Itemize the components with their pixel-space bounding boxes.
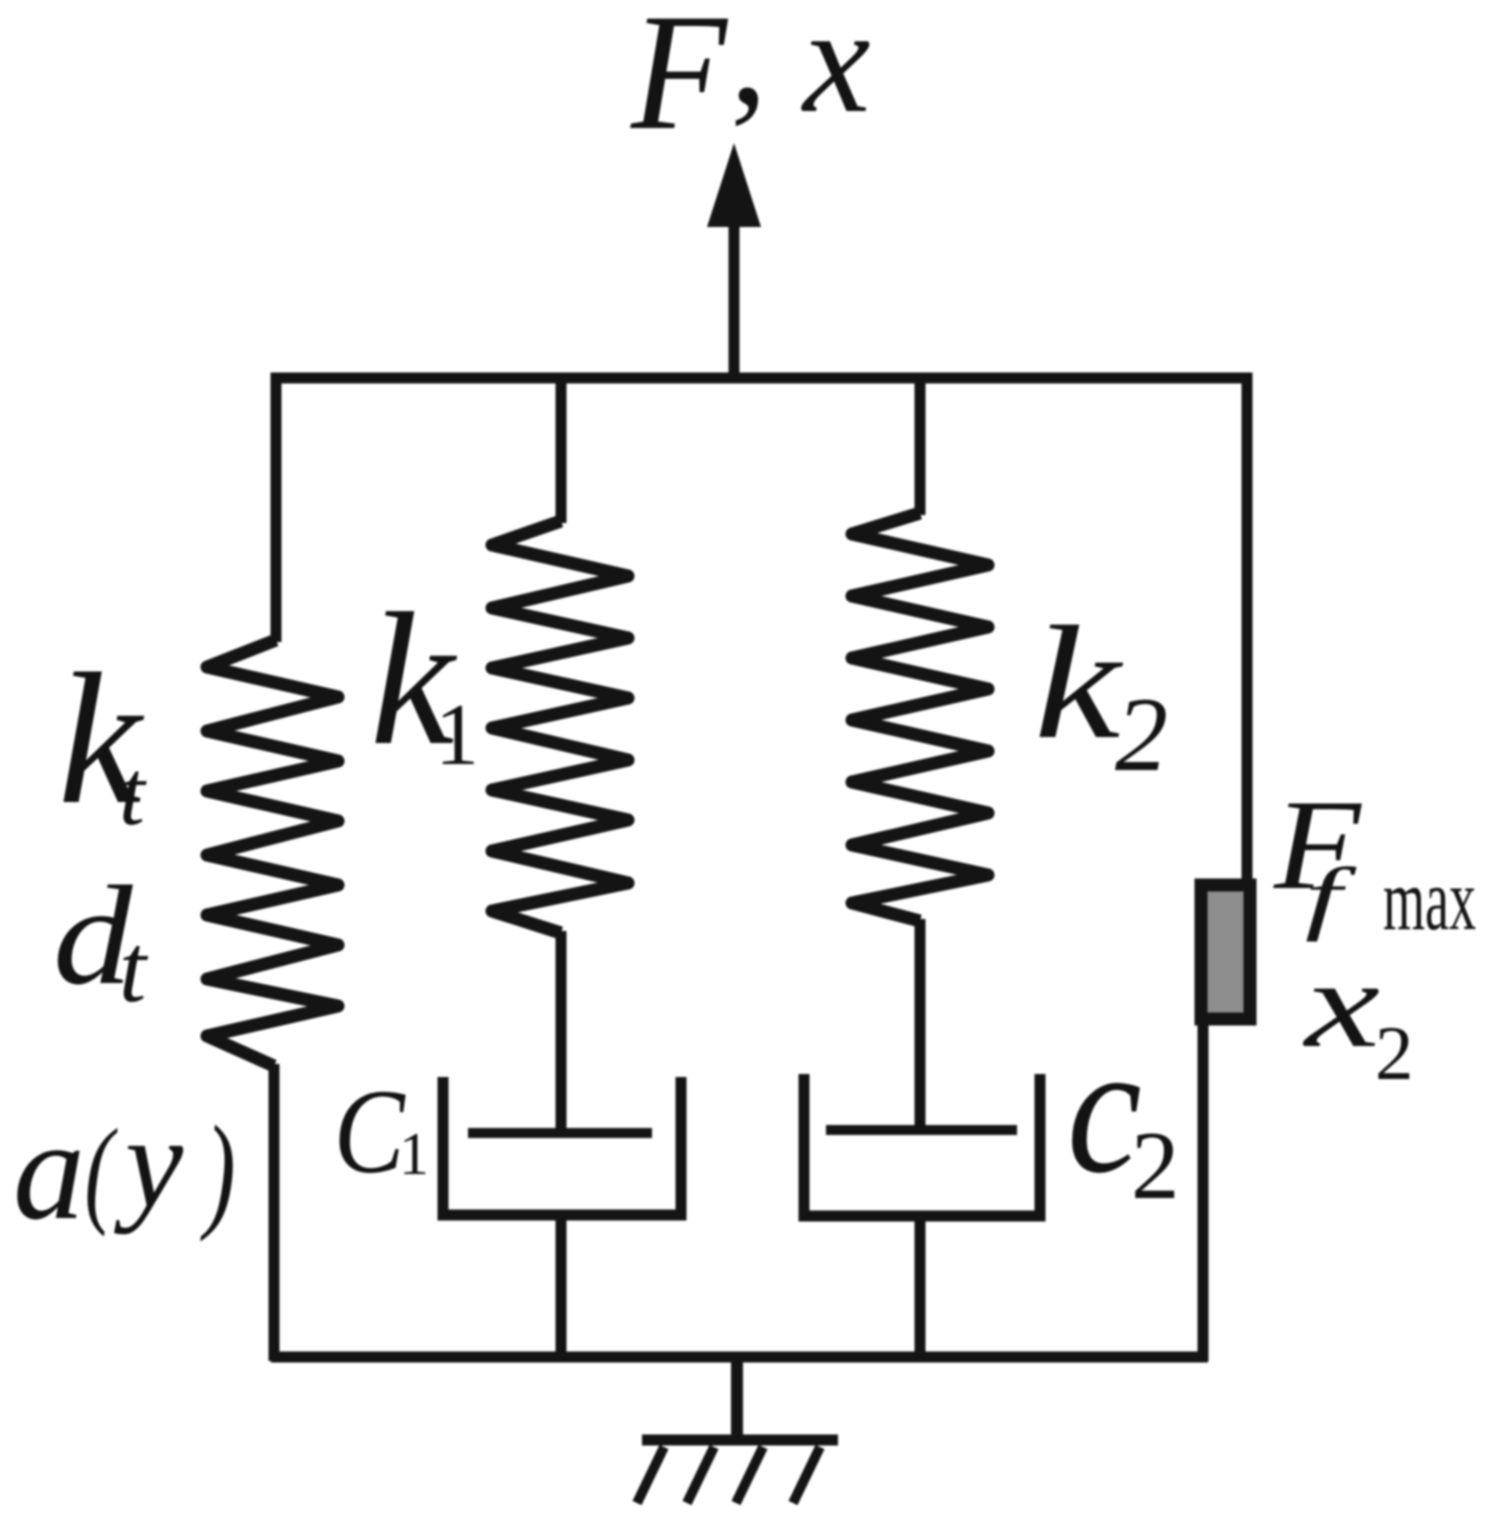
svg-text:k: k xyxy=(1034,593,1124,772)
ground xyxy=(637,1360,838,1503)
label dt xyxy=(53,857,149,1023)
svg-text:F: F xyxy=(630,0,729,165)
label x2 xyxy=(1303,936,1414,1096)
svg-text:x: x xyxy=(801,0,870,144)
svg-text:t: t xyxy=(119,742,147,845)
friction element Ffmax xyxy=(1201,885,1250,1019)
wire branch3 rod to piston xyxy=(915,919,926,1131)
svg-text:max: max xyxy=(1383,852,1476,949)
svg-text:y: y xyxy=(114,1090,184,1235)
svg-text:2: 2 xyxy=(1115,676,1168,793)
spring kt xyxy=(207,640,338,1066)
label c2 xyxy=(1067,1005,1180,1219)
wire branch3 upper xyxy=(915,378,926,515)
svg-text:x: x xyxy=(1303,936,1380,1074)
spring k1 xyxy=(492,521,628,933)
wire branch2 upper xyxy=(556,378,567,523)
damper c2 cylinder cup xyxy=(804,1074,1040,1216)
label kt xyxy=(58,634,147,845)
svg-text:1: 1 xyxy=(435,687,479,784)
spring k2 xyxy=(852,513,988,921)
label a(y) xyxy=(13,1090,236,1250)
svg-text:C: C xyxy=(334,1064,407,1199)
damper C1 cylinder cup xyxy=(443,1077,681,1215)
svg-text:2: 2 xyxy=(1131,1112,1180,1219)
svg-text:a: a xyxy=(13,1091,85,1250)
label k1 xyxy=(370,575,479,785)
label k2 xyxy=(1034,593,1168,793)
label F, x xyxy=(630,0,870,165)
wire right branch lower xyxy=(1198,1020,1209,1361)
wire branch2 lower rod xyxy=(556,1215,567,1361)
wire bottom frame xyxy=(271,1352,1208,1363)
label C1 xyxy=(334,1064,429,1199)
damper c2 piston plate xyxy=(826,1125,1017,1135)
wire top frame with upper side verticals xyxy=(276,378,1247,886)
label Ffmax xyxy=(1273,774,1476,949)
wire branch2 rod to piston xyxy=(556,931,567,1134)
damper C1 piston plate xyxy=(468,1128,652,1138)
wire branch3 lower rod xyxy=(915,1216,926,1361)
svg-text:t: t xyxy=(119,915,149,1023)
svg-text:1: 1 xyxy=(399,1121,429,1187)
svg-text:,: , xyxy=(730,0,768,136)
svg-text:): ) xyxy=(200,1100,236,1242)
svg-text:2: 2 xyxy=(1375,1010,1414,1096)
wire left branch lower xyxy=(269,1064,280,1361)
force arrow F xyxy=(707,143,761,380)
